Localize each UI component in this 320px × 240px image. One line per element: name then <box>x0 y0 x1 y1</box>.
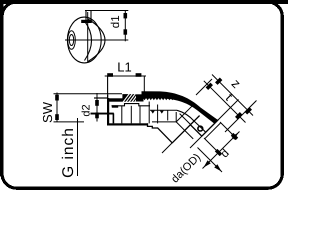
main view: miter joint line <box>172 116 199 143</box>
label da(OD): lower leader arrowhead <box>214 164 221 171</box>
main view: internal vertical line e <box>148 102 150 124</box>
main view: bottom edge (thick) <box>107 123 148 125</box>
dimension L1: left extension line <box>107 76 109 94</box>
main view: bore bottom line <box>152 121 176 123</box>
dimension d: dimension line <box>203 132 240 169</box>
thread mark 1 <box>151 111 155 114</box>
main view: hidden bore 45 line up <box>176 106 192 122</box>
dimension z: lower tick <box>245 107 252 114</box>
label da(OD): lower leader line <box>198 148 223 173</box>
svg-text:d: d <box>219 147 232 160</box>
thread mark 2 <box>160 111 164 114</box>
svg-text:da(OD): da(OD) <box>169 151 203 185</box>
end view: branch stub left edge <box>85 11 87 22</box>
main view: spigot end face <box>202 120 218 136</box>
dimension d: upper tick <box>231 133 238 140</box>
dimension z: dimension line <box>212 75 253 116</box>
dimension L1: right tick <box>136 73 142 77</box>
main view: internal vertical line d <box>139 106 141 124</box>
main view: spigot chamfer line <box>205 123 221 139</box>
svg-text:L1: L1 <box>117 59 131 74</box>
dimension d2: dimension line <box>96 93 98 122</box>
main view: spigot wall hidden segment <box>180 114 191 125</box>
dimension z: upper extension line <box>196 79 212 95</box>
main view: bore top line with step <box>112 104 151 106</box>
border frame <box>2 2 282 188</box>
svg-text:d2: d2 <box>80 104 92 116</box>
main view: outer bend band (thick) <box>142 91 219 124</box>
main view: internal vertical line b <box>121 106 123 124</box>
main view: internal vertical line a <box>112 113 114 123</box>
svg-text:SW: SW <box>40 101 55 123</box>
main view: spigot lower wall <box>190 125 202 137</box>
end view: branch stub base (thick) <box>81 20 92 23</box>
end view: right arc <box>88 19 105 62</box>
spigot face extension line <box>190 100 239 149</box>
main view: lower 45 wall of branch <box>157 128 172 144</box>
main view: band thread teeth <box>143 98 174 100</box>
dimension t: lower tick <box>235 112 242 119</box>
dimension d: lower tick <box>215 149 222 156</box>
dimension d1: bottom tick <box>124 29 128 34</box>
dimension SW: bottom tick <box>55 114 59 120</box>
main view: bore line thick start <box>112 105 118 107</box>
end view: horizontal centerline <box>65 39 128 41</box>
main view: internal thick seg <box>91 113 114 115</box>
dimension SW: bottom extension line <box>54 121 85 123</box>
dimension d: upper extension line (along axis) <box>220 122 237 139</box>
main view: hatched thread band <box>122 94 138 103</box>
dimension SW: top tick <box>55 95 59 101</box>
dimension d1: top tick <box>124 13 128 18</box>
main view: thread crest band with scalloped edge <box>136 94 144 101</box>
dimension L1: dimension line <box>105 75 146 77</box>
dimension z: upper tick <box>215 78 222 85</box>
main view: internal vertical line g <box>167 110 169 120</box>
main view: socket top wall lower thick line <box>107 98 122 101</box>
dimension d2: bottom tick <box>95 113 99 119</box>
border top strip <box>0 0 288 4</box>
dimension d2: top extension line <box>94 97 108 99</box>
main view: internal vertical line f <box>157 105 159 124</box>
svg-text:d1: d1 <box>110 15 122 28</box>
svg-text:G inch: G inch <box>60 127 77 178</box>
end view: branch stub right edge <box>90 11 92 22</box>
main view: left face of socket <box>107 94 108 104</box>
end view: outer circle of body <box>67 17 101 63</box>
main view: inner bend curve <box>177 110 205 132</box>
main view: top edge / SW top extension line <box>54 93 123 95</box>
main view: hidden bore 45 line down <box>176 122 193 139</box>
dimension z: lower extension line <box>225 101 257 133</box>
dimension L1: right extension line <box>143 76 145 92</box>
end view: thread end ellipse inner <box>69 35 73 46</box>
dimension L1: left tick <box>107 73 113 77</box>
dimension t: upper tick <box>206 83 213 90</box>
dimension G inch: leader line <box>77 118 79 176</box>
main view: internal vertical line c <box>130 106 132 124</box>
label da(OD): surface circle <box>198 126 203 131</box>
dimension d: outer arrowhead upper <box>231 131 240 140</box>
main view: bottom step <box>148 123 158 128</box>
end view: thread end ellipse outer <box>68 31 76 50</box>
end view: middle arc <box>85 21 92 61</box>
dimension d: lower extension line (along axis) <box>204 138 221 155</box>
dimension t: dimension line <box>204 81 246 123</box>
dimension d: outer arrowhead lower <box>202 160 211 169</box>
dimension d2: top tick <box>95 100 99 106</box>
main view: internal vertical line h <box>175 112 177 122</box>
dimension SW: dimension line <box>56 93 58 123</box>
dimension d1: top extension line incl. stub cap <box>85 10 128 12</box>
label da(OD): leader line <box>162 116 200 154</box>
dimension d1: dimension line <box>124 11 126 42</box>
border left strip <box>0 0 3 176</box>
end view: vertical centerline <box>87 12 89 63</box>
main view: bore line right with thread marks <box>150 109 177 111</box>
svg-text:z: z <box>229 76 244 91</box>
